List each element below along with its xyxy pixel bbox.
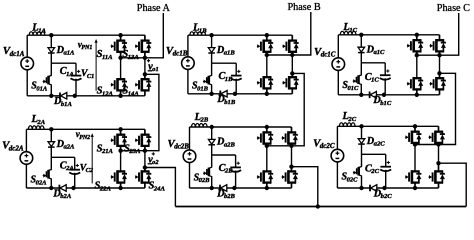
wire top rail cell B1 (188, 34, 292, 36)
switch S_24B (291, 167, 293, 172)
wire bridge midpoint rail B1 (267, 54, 293, 56)
wire capacitor to bottom rail C1 (384, 78, 386, 95)
junction capacitor bottom C1 (382, 93, 386, 97)
capacitor C_1B (231, 75, 242, 77)
wire node to capacitor B1 (212, 62, 237, 64)
inductor L_1B (190, 32, 206, 35)
wire bottom rail cell C2 (337, 187, 438, 189)
switch S_13A (144, 35, 146, 40)
junction S_01C bottom (359, 93, 363, 97)
junction neutral bus phase B (316, 204, 320, 208)
capacitor plus B2 (237, 162, 240, 164)
wire S_02A column A2 (50, 157, 52, 168)
wire left leg mid C1 (416, 55, 418, 78)
wire neutral drop phase B (292, 167, 318, 207)
wire bridge midpoint rail B2 (267, 145, 292, 147)
junction left leg midpoint B2 (265, 144, 269, 148)
wire bottom rail cell A1 (27, 95, 145, 97)
junction capacitor bottom A2 (71, 186, 75, 190)
wire source left leg A2 (25, 129, 27, 152)
capacitor C_2A (69, 169, 80, 171)
switch S_12C (416, 77, 418, 79)
switch S_01A (49, 73, 52, 87)
node v_o1 label (147, 60, 150, 62)
diode D_a1B (208, 48, 215, 53)
switch S_14A (144, 74, 146, 79)
inductor L_1A (29, 32, 45, 35)
junction right leg lower tap B1 (290, 71, 294, 75)
junction right leg lower tap A1 (143, 72, 147, 76)
diode D_a1C (358, 47, 365, 52)
junction D_a2B top (210, 125, 214, 129)
wire D_a column B2 (211, 127, 213, 155)
wire bottom rail cell B2 (190, 187, 292, 189)
junction right leg midpoint B1 (290, 53, 294, 57)
wire neutral drop phase C (439, 163, 467, 206)
switch S_22C (414, 170, 416, 172)
switch S_01B (209, 73, 212, 87)
wire source left leg B1 (187, 35, 189, 57)
svg-text:Phase B: Phase B (288, 2, 321, 13)
junction right leg midpoint A2 (143, 149, 147, 153)
node v_PN1 arrow (95, 41, 97, 91)
wire source left leg B2 (189, 127, 191, 150)
junction S_01A bottom (49, 94, 53, 98)
wire left leg mid A1 (120, 58, 122, 79)
switch S_11C (416, 35, 418, 40)
junction bridge left leg bottom A1 (118, 94, 122, 98)
wire capacitor to bottom rail B1 (235, 79, 237, 94)
wire D_a column C1 (360, 35, 362, 63)
svg-text:Phase C: Phase C (437, 3, 470, 14)
junction bridge left leg top B1 (265, 33, 269, 37)
wire capacitor to bottom rail B2 (235, 171, 237, 189)
wire top rail cell A2 (26, 128, 144, 130)
wire Phase A output line (145, 13, 163, 58)
switch S_23B (291, 127, 293, 132)
junction bridge left leg bottom B2 (265, 186, 269, 190)
DC source V_dc2B (183, 150, 196, 163)
junction S_01B bottom (209, 92, 213, 96)
junction bridge left leg bottom C1 (415, 93, 419, 97)
junction left leg midpoint C1 (415, 53, 419, 57)
wire S_01C column C1 (360, 63, 362, 74)
switch S_24A (144, 168, 146, 172)
wire series link phase A (145, 74, 159, 150)
switch S_02A (49, 167, 52, 181)
switch S_23C (438, 126, 440, 131)
inductor L_2C (339, 123, 355, 126)
switch S_22A (120, 170, 122, 172)
switch S_21A (120, 129, 122, 134)
wire series link phase B (292, 73, 305, 145)
node v_o2 label (152, 153, 155, 155)
junction left leg midpoint B1 (265, 53, 269, 57)
wire D_a column A1 (50, 35, 52, 63)
capacitor plus C2 (387, 162, 390, 164)
switch S_14C (439, 73, 441, 78)
switch S_01C (359, 73, 362, 87)
wire series link phase C (439, 73, 456, 144)
inductor L_1C (340, 31, 356, 34)
wire right leg mid B2 (291, 146, 293, 167)
wire Phase C output line (440, 13, 459, 55)
switch S_02B (209, 165, 212, 179)
wire capacitor to bottom rail A1 (75, 79, 77, 96)
junction D_a1A top (49, 33, 53, 37)
junction D_a1C top (359, 33, 363, 37)
capacitor C_1A (71, 75, 82, 77)
diode D_b1B (219, 91, 221, 98)
junction bridge left leg bottom B1 (265, 92, 269, 96)
wire left leg mid B2 (266, 146, 268, 172)
junction capacitor bottom B1 (233, 92, 237, 96)
capacitor plus C1 (386, 70, 389, 72)
wire node to capacitor C1 (361, 62, 385, 64)
junction left leg midpoint A2 (118, 149, 122, 153)
junction capacitor bottom A1 (73, 94, 77, 98)
switch S_11B (266, 35, 268, 40)
inductor L_2B (192, 124, 208, 127)
wire S_02B column B2 (211, 155, 213, 166)
junction bridge left leg bottom A2 (118, 186, 122, 190)
switch S_02C (359, 164, 362, 178)
diode D_a1A (48, 48, 55, 53)
junction right leg midpoint B2 (289, 144, 293, 148)
diode D_a2C (358, 139, 365, 144)
switch S_13B (291, 35, 293, 40)
diode D_b2C (369, 185, 371, 192)
wire bottom rail cell C1 (338, 94, 439, 96)
wire neutral drop phase A (145, 168, 176, 207)
wire source left leg C2 (336, 126, 338, 149)
capacitor C_1C (380, 74, 391, 76)
switch S_12B (266, 76, 268, 78)
wire bridge midpoint rail C1 (417, 54, 440, 56)
wire D_a column A2 (50, 129, 52, 157)
wire bridge midpoint rail A1 (121, 57, 145, 59)
svg-text:Phase A: Phase A (137, 3, 171, 14)
junction bridge left leg top C2 (413, 124, 417, 128)
switch S_21C (414, 126, 416, 131)
inductor L_2A (28, 126, 44, 129)
junction capacitor bottom B2 (232, 186, 236, 190)
junction bridge left leg top B2 (265, 125, 269, 129)
switch S_14B (291, 73, 293, 77)
switch S_13C (439, 35, 441, 40)
switch S_21B (266, 127, 268, 132)
wire source left leg A1 (26, 35, 28, 57)
junction S_02A bottom (49, 186, 53, 190)
wire neutral bus (175, 206, 466, 208)
junction D_a1B top (209, 33, 213, 37)
capacitor plus A2 (76, 165, 79, 167)
diode D_a2A (48, 142, 55, 147)
diode D_a2B (208, 139, 215, 144)
diode D_b2B (219, 185, 221, 192)
junction left leg midpoint A1 (118, 56, 122, 60)
DC source V_dc1A (21, 57, 34, 70)
junction right leg lower tap A2 (143, 165, 147, 169)
junction capacitor bottom C2 (382, 186, 386, 190)
capacitor plus A1 (77, 70, 80, 72)
wire S_02C column C2 (361, 154, 363, 165)
DC source V_dc1B (182, 57, 195, 70)
wire D_a column B1 (211, 35, 213, 63)
wire right leg mid B1 (291, 55, 293, 73)
wire top rail cell B2 (190, 126, 292, 128)
wire right leg mid A1 (144, 58, 146, 75)
junction D_a2C top (359, 124, 363, 128)
wire source left leg C1 (337, 35, 339, 58)
switch S_12A (120, 78, 122, 80)
switch S_11A (120, 35, 122, 40)
junction bridge left leg top A2 (118, 127, 122, 131)
DC source V_dc2C (331, 149, 344, 162)
wire D_a column C2 (361, 126, 363, 154)
wire bottom rail cell B1 (188, 93, 292, 95)
wire S_01B column B1 (211, 63, 213, 74)
diode D_b1C (369, 92, 371, 99)
wire right leg mid C2 (438, 145, 440, 164)
node v_PN2 arrow (91, 135, 93, 183)
diode D_b1A (59, 93, 61, 100)
wire node to capacitor B2 (212, 154, 236, 156)
wire top rail cell C2 (337, 125, 438, 127)
switch S_24C (438, 163, 440, 171)
junction right leg midpoint A1 (143, 56, 147, 60)
junction S_02C bottom (359, 186, 363, 190)
junction left leg midpoint C2 (413, 142, 417, 146)
junction right leg lower tap B2 (289, 165, 293, 169)
DC source V_dc1C (332, 58, 345, 71)
junction right leg midpoint C1 (437, 53, 441, 57)
wire S_01A column A1 (50, 63, 52, 74)
wire left leg mid C2 (414, 145, 416, 172)
capacitor C_2C (380, 166, 391, 168)
switch S_22B (266, 170, 268, 172)
wire node to capacitor A2 (51, 156, 74, 158)
wire bridge midpoint rail A2 (121, 150, 145, 152)
wire bottom rail cell A2 (26, 187, 144, 189)
capacitor plus B1 (237, 70, 240, 72)
wire right leg mid A2 (144, 151, 146, 168)
wire Phase B output line (292, 12, 311, 55)
wire top rail cell A1 (27, 34, 145, 36)
wire node to capacitor C2 (362, 153, 386, 155)
switch S_23A (144, 129, 146, 134)
wire bridge midpoint rail C2 (415, 144, 439, 146)
wire capacitor to bottom rail A2 (74, 173, 76, 188)
DC source V_dc2A (20, 152, 33, 165)
wire right leg mid C1 (439, 55, 441, 73)
diode D_b2A (58, 185, 60, 192)
junction right leg lower tap C2 (436, 161, 440, 165)
junction bridge left leg top A1 (118, 33, 122, 37)
wire left leg mid A2 (120, 151, 122, 172)
wire top rail cell C1 (338, 34, 439, 36)
capacitor C_2B (230, 166, 241, 168)
junction S_02B bottom (210, 186, 214, 190)
junction bridge left leg top C1 (415, 33, 419, 37)
junction right leg midpoint C2 (436, 142, 440, 146)
junction right leg lower tap C1 (437, 71, 441, 75)
wire node to capacitor A1 (51, 62, 76, 64)
wire left leg mid B1 (266, 55, 268, 77)
junction D_a2A top (49, 127, 53, 131)
wire capacitor to bottom rail C2 (385, 170, 387, 188)
junction bridge left leg bottom C2 (413, 186, 417, 190)
